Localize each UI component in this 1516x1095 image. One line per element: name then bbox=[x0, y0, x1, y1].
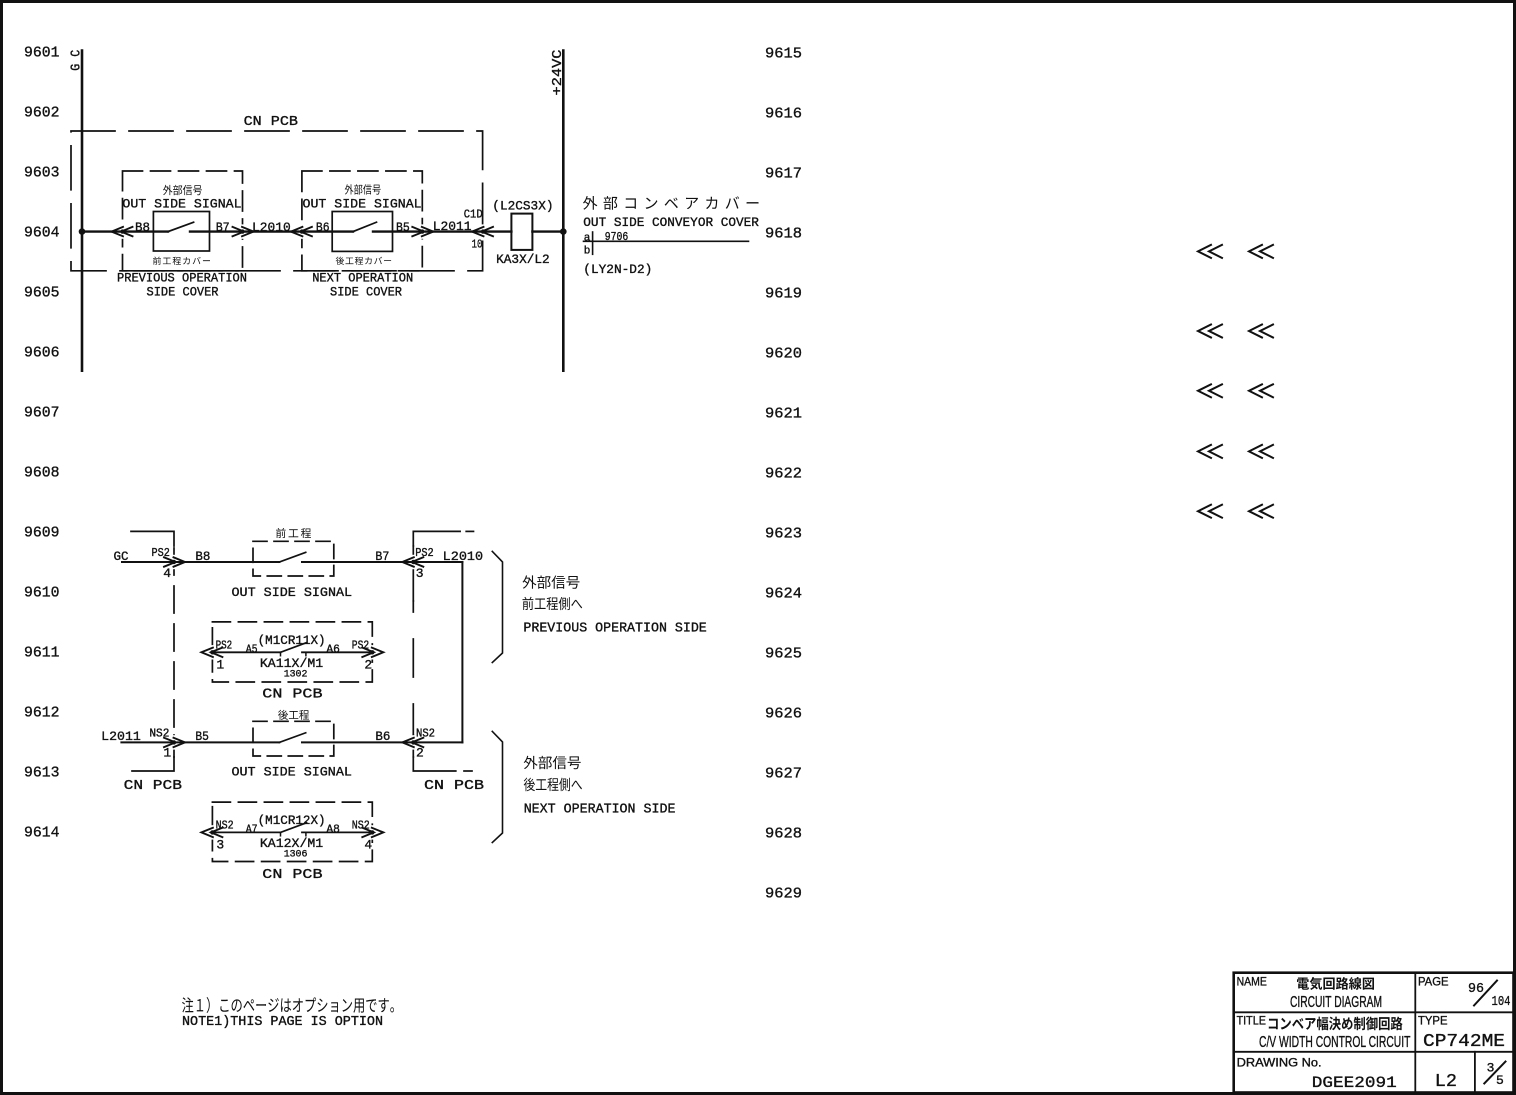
svg-text:a: a bbox=[584, 232, 591, 244]
net label L2011 (row 9612) bbox=[101, 729, 141, 744]
svg-text:PREVIOUS OPERATION: PREVIOUS OPERATION bbox=[117, 271, 247, 285]
svg-text:NS2: NS2 bbox=[216, 819, 234, 833]
label 外部信号 (S1) bbox=[163, 185, 202, 195]
svg-text:4: 4 bbox=[163, 566, 171, 581]
label KA3X/L2 bbox=[496, 252, 550, 267]
label DRAWING No. bbox=[1237, 1055, 1322, 1069]
label (LY2N-D2) bbox=[583, 262, 652, 277]
svg-text:PREVIOUS OPERATION SIDE: PREVIOUS OPERATION SIDE bbox=[523, 621, 706, 636]
label OUT SIDE SIGNAL (S2) bbox=[303, 196, 422, 211]
pin number 1 bbox=[216, 658, 224, 673]
dash continuation top right bbox=[466, 530, 473, 532]
label TYPE bbox=[1418, 1014, 1448, 1028]
switch S3 box (dashed) bbox=[253, 541, 334, 576]
svg-text:A5: A5 bbox=[246, 643, 258, 657]
svg-text:9603: 9603 bbox=[24, 164, 60, 181]
svg-text:9619: 9619 bbox=[765, 285, 802, 302]
svg-text:OUT SIDE CONVEYOR COVER: OUT SIDE CONVEYOR COVER bbox=[583, 216, 759, 230]
svg-text:+24VC: +24VC bbox=[550, 50, 566, 96]
title コンベア幅決め制御回路 bbox=[1269, 1017, 1403, 1031]
svg-text:TITLE: TITLE bbox=[1237, 1014, 1266, 1028]
contact KA12X blade bbox=[281, 823, 307, 833]
connector boundary left (bottom corner) bbox=[132, 757, 174, 771]
svg-text:5: 5 bbox=[1496, 1073, 1504, 1088]
contact a-b of LY2N relay, wire 9706 bbox=[584, 240, 749, 242]
pin label A8 bbox=[326, 823, 340, 837]
svg-text:GC: GC bbox=[114, 549, 129, 564]
label OUT SIDE SIGNAL (S3) bbox=[232, 585, 353, 600]
svg-text:NEXT OPERATION SIDE: NEXT OPERATION SIDE bbox=[524, 802, 676, 817]
wire L2011 into NS2 pin1 (row 9612) bbox=[121, 741, 279, 743]
svg-text:1: 1 bbox=[216, 658, 224, 673]
destination bracket (next side) bbox=[492, 731, 502, 842]
svg-text:TYPE: TYPE bbox=[1418, 1014, 1448, 1028]
title block small divider bbox=[1474, 1052, 1476, 1093]
label (L2CS3X) bbox=[492, 199, 553, 214]
svg-text:B6: B6 bbox=[316, 220, 330, 235]
svg-text:NOTE1)THIS PAGE IS OPTION: NOTE1)THIS PAGE IS OPTION bbox=[182, 1015, 383, 1030]
label CN PCB (bottom left) bbox=[124, 778, 182, 794]
svg-text:PS2: PS2 bbox=[216, 639, 233, 653]
wire S4 to corner (row 9612) bbox=[302, 741, 462, 743]
wire contact to PS2 pin2 bbox=[302, 651, 372, 653]
pin label B6 bbox=[316, 220, 330, 235]
svg-text:A6: A6 bbox=[326, 643, 340, 657]
pin number 4 bbox=[163, 566, 171, 581]
label PS2 (pin2) bbox=[352, 639, 369, 653]
pin label B5 bbox=[396, 220, 410, 235]
connector boundary box B8/B7 (previous cover switch) bbox=[123, 171, 243, 271]
svg-text:(M1CR11X): (M1CR11X) bbox=[258, 633, 326, 648]
svg-text:PAGE: PAGE bbox=[1418, 975, 1449, 989]
svg-text:CN PCB: CN PCB bbox=[244, 114, 298, 130]
svg-text:OUT SIDE SIGNAL: OUT SIDE SIGNAL bbox=[232, 765, 352, 780]
wire number 9706 bbox=[605, 231, 628, 244]
type CP742ME bbox=[1423, 1032, 1505, 1052]
net GC bus (left vertical rail) bbox=[81, 51, 84, 371]
destination bracket (previous side) bbox=[492, 551, 502, 662]
svg-text:9621: 9621 bbox=[765, 405, 802, 422]
wire GC into PS2 pin4 (row 9609) bbox=[122, 561, 279, 563]
label (M1CR11X) bbox=[258, 633, 326, 648]
label OUT SIDE SIGNAL (S1) bbox=[122, 196, 241, 211]
svg-text:C1D: C1D bbox=[464, 208, 483, 222]
label GC bbox=[114, 549, 129, 564]
wire switch S1 to switch S2 bbox=[190, 230, 353, 232]
svg-text:9618: 9618 bbox=[765, 225, 802, 242]
svg-text:NAME: NAME bbox=[1237, 975, 1267, 989]
label 外部信号 (S2) bbox=[345, 184, 381, 194]
svg-text:OUT SIDE SIGNAL: OUT SIDE SIGNAL bbox=[122, 196, 241, 211]
contact terminal ticks bbox=[280, 652, 282, 655]
label 前工程 (S3) bbox=[276, 528, 311, 538]
svg-text:L2011: L2011 bbox=[101, 729, 141, 744]
svg-text:1302: 1302 bbox=[284, 669, 308, 680]
connector arrow B7 (right) bbox=[241, 224, 245, 238]
pin label B6 (row 9612) bbox=[375, 729, 390, 744]
svg-text:B6: B6 bbox=[375, 729, 390, 744]
svg-text:1: 1 bbox=[163, 746, 171, 761]
svg-text:3: 3 bbox=[216, 838, 224, 853]
net label L2010 (row 9609) bbox=[443, 549, 483, 564]
svg-text:DGEE2091: DGEE2091 bbox=[1312, 1074, 1397, 1092]
CN PCB board boundary box (top) bbox=[71, 131, 483, 271]
label NAME bbox=[1237, 975, 1267, 989]
net label L2011 bbox=[433, 219, 472, 234]
svg-text:9620: 9620 bbox=[765, 345, 802, 362]
pin number 2 bbox=[364, 658, 372, 673]
label 後工程カバー (S2) bbox=[336, 257, 391, 265]
svg-text:1306: 1306 bbox=[284, 849, 308, 860]
title block frame bbox=[1234, 973, 1514, 1093]
connector arrow PS2 pin1 (left) bbox=[210, 645, 214, 659]
svg-text:9628: 9628 bbox=[765, 825, 802, 842]
svg-text:B5: B5 bbox=[195, 729, 209, 744]
svg-text:(LY2N-D2): (LY2N-D2) bbox=[583, 262, 652, 277]
svg-text:SIDE COVER: SIDE COVER bbox=[330, 285, 402, 299]
sheet number 3/5 bbox=[1487, 1061, 1495, 1076]
svg-text:PS2: PS2 bbox=[352, 639, 369, 653]
svg-text:3: 3 bbox=[416, 566, 424, 581]
pin label B8 (row 9609) bbox=[195, 549, 210, 564]
pin label B5 (row 9612) bbox=[195, 729, 209, 744]
connector arrow PS2 pin4 bbox=[172, 555, 176, 569]
svg-text:2: 2 bbox=[416, 746, 424, 761]
svg-text:2: 2 bbox=[364, 658, 372, 673]
pin label A5 bbox=[246, 643, 258, 657]
svg-text:9624: 9624 bbox=[765, 585, 802, 602]
label 外部信号 (to previous) bbox=[522, 575, 579, 588]
svg-text:L2010: L2010 bbox=[252, 220, 291, 235]
connector arrow B5 (right) bbox=[420, 224, 424, 238]
connector arrow NS2 pin1 bbox=[172, 735, 176, 749]
svg-text:NS2: NS2 bbox=[352, 819, 370, 833]
svg-text:B7: B7 bbox=[375, 549, 389, 564]
connector arrow NS2 pin3 (left) bbox=[210, 825, 214, 839]
label NS2 (pin3) bbox=[216, 819, 234, 833]
svg-text:9616: 9616 bbox=[765, 105, 802, 122]
label 前工程側へ bbox=[522, 597, 582, 610]
line number column right 9615-9629 bbox=[765, 45, 802, 902]
svg-text:104: 104 bbox=[1492, 994, 1511, 1010]
pin number 10 bbox=[472, 238, 483, 252]
connector arrow PS2 pin3 bbox=[411, 555, 415, 569]
junction node on GC rail bbox=[79, 228, 86, 235]
connector boundary right (dashed vertical) bbox=[412, 546, 414, 601]
svg-text:G C: G C bbox=[70, 50, 85, 71]
svg-text:9629: 9629 bbox=[765, 885, 802, 902]
label KA11X/M1 bbox=[260, 656, 323, 671]
label CN PCB (KA11X) bbox=[262, 687, 322, 703]
line number column left 9601-9614 bbox=[24, 44, 60, 841]
pin label a bbox=[584, 232, 591, 244]
svg-text:9611: 9611 bbox=[24, 644, 60, 661]
label PREVIOUS OPERATION SIDE bbox=[523, 621, 706, 636]
pin number 3 (NS2) bbox=[216, 838, 224, 853]
connector boundary right (bottom corner) bbox=[413, 757, 456, 771]
svg-text:9605: 9605 bbox=[24, 284, 60, 301]
connector boundary box B6/B5 (next cover switch) bbox=[302, 171, 422, 271]
svg-text:B8: B8 bbox=[135, 220, 150, 235]
pin number 1 (NS2) bbox=[163, 746, 171, 761]
svg-text:9613: 9613 bbox=[24, 764, 60, 781]
pin label A6 bbox=[326, 643, 340, 657]
wire number 1302 bbox=[284, 669, 308, 680]
switch S1 previous operation side cover (box) bbox=[153, 212, 209, 252]
connector boundary right (top corner) bbox=[413, 531, 460, 546]
label PS2 (pin1) bbox=[216, 639, 233, 653]
label SIDE COVER (S2) bbox=[330, 285, 402, 299]
svg-text:CN PCB: CN PCB bbox=[124, 778, 182, 794]
pin label b bbox=[584, 246, 591, 258]
title 電気回路線図 bbox=[1297, 977, 1374, 990]
svg-text:9614: 9614 bbox=[24, 824, 60, 841]
svg-text:9604: 9604 bbox=[24, 224, 60, 241]
svg-text:(L2CS3X): (L2CS3X) bbox=[492, 199, 553, 214]
title block row divider 1 bbox=[1234, 1011, 1514, 1013]
drawing number DGEE2091 bbox=[1312, 1074, 1397, 1092]
svg-text:9602: 9602 bbox=[24, 104, 60, 121]
svg-text:10: 10 bbox=[472, 238, 483, 252]
svg-text:DRAWING No.: DRAWING No. bbox=[1237, 1055, 1322, 1069]
switch S1 blade bbox=[168, 222, 194, 231]
note 注1）このページはオプション用です。 bbox=[182, 997, 394, 1013]
wire L2010 drop to row 9612 bbox=[461, 562, 463, 742]
label PAGE bbox=[1418, 975, 1449, 989]
svg-text:9625: 9625 bbox=[765, 645, 802, 662]
connector arrow PS2 pin2 (right) bbox=[370, 645, 374, 659]
svg-text:CN PCB: CN PCB bbox=[424, 778, 484, 794]
label PREVIOUS OPERATION (S1) bbox=[117, 271, 247, 285]
svg-text:9607: 9607 bbox=[24, 404, 60, 421]
label KA12X/M1 bbox=[260, 836, 323, 851]
svg-text:9612: 9612 bbox=[24, 704, 60, 721]
relay coil KA3X/L2 bbox=[511, 214, 532, 250]
pin label C1D bbox=[464, 208, 483, 222]
title block row divider 2 bbox=[1234, 1051, 1514, 1053]
connector arrow NS2 pin2 bbox=[411, 735, 415, 749]
connector arrow C1D pin10 (left) bbox=[481, 224, 485, 238]
net label +24VC (rotated) bbox=[550, 50, 566, 96]
pin label B7 (row 9609) bbox=[375, 549, 389, 564]
svg-text:PS2: PS2 bbox=[415, 546, 434, 560]
page link chevrons bbox=[1198, 245, 1211, 258]
label NEXT OPERATION SIDE bbox=[524, 802, 676, 817]
svg-text:9623: 9623 bbox=[765, 525, 802, 542]
svg-text:OUT SIDE SIGNAL: OUT SIDE SIGNAL bbox=[232, 585, 353, 600]
svg-text:CN PCB: CN PCB bbox=[262, 687, 322, 703]
label CN PCB (bottom right) bbox=[424, 778, 484, 794]
net +24VC bus (vertical rail) bbox=[562, 51, 565, 371]
switch S2 blade bbox=[353, 222, 377, 231]
svg-text:PS2: PS2 bbox=[152, 546, 170, 560]
switch S3 blade (previous operation) bbox=[279, 552, 305, 562]
svg-text:NS2: NS2 bbox=[149, 727, 169, 741]
label SIDE COVER (S1) bbox=[147, 285, 219, 299]
title block column divider bbox=[1414, 973, 1416, 1093]
svg-text:9610: 9610 bbox=[24, 584, 60, 601]
svg-text:9622: 9622 bbox=[765, 465, 802, 482]
label CN PCB (top) bbox=[244, 114, 298, 130]
switch S4 box (dashed) bbox=[253, 721, 334, 756]
pin number 4 (NS2) bbox=[364, 838, 372, 853]
svg-text:SIDE COVER: SIDE COVER bbox=[147, 285, 219, 299]
svg-text:A8: A8 bbox=[326, 823, 340, 837]
label 外部信号 (to next) bbox=[524, 756, 581, 769]
connector PS2/NS2 boundary left (top corner) bbox=[131, 531, 174, 546]
wire GC node to B8 switch (row 9604) bbox=[82, 230, 168, 232]
label CN PCB (KA12X) bbox=[262, 867, 322, 883]
connector arrow B8 (left) bbox=[121, 224, 125, 238]
svg-text:9627: 9627 bbox=[765, 765, 802, 782]
note NOTE1)THIS PAGE IS OPTION bbox=[182, 1015, 383, 1030]
pin number 2 (NS2) bbox=[416, 746, 424, 761]
svg-text:B5: B5 bbox=[396, 220, 410, 235]
svg-text:CIRCUIT DIAGRAM: CIRCUIT DIAGRAM bbox=[1290, 994, 1382, 1011]
contact terminal ticks (KA12X) bbox=[280, 832, 282, 835]
label PS2 (pin3) bbox=[415, 546, 434, 560]
label 後工程 (S4) bbox=[278, 710, 309, 720]
pin label B8 bbox=[135, 220, 150, 235]
svg-text:L2010: L2010 bbox=[443, 549, 483, 564]
pin label B7 bbox=[216, 220, 230, 235]
page number 96/104 bbox=[1468, 981, 1484, 997]
label NS2 (pin4) bbox=[352, 819, 370, 833]
svg-text:CP742ME: CP742ME bbox=[1423, 1032, 1505, 1052]
title CIRCUIT DIAGRAM bbox=[1290, 994, 1382, 1011]
svg-text:KA3X/L2: KA3X/L2 bbox=[496, 252, 550, 267]
switch S2 next operation side cover (box) bbox=[332, 212, 392, 252]
label NS2 (pin1) bbox=[149, 727, 169, 741]
pin number 3 bbox=[416, 566, 424, 581]
net label L2010 bbox=[252, 220, 291, 235]
connector arrow B6 (left) bbox=[300, 224, 304, 238]
wire S3 to L2010 corner bbox=[302, 561, 462, 563]
label OUT SIDE CONVEYOR COVER bbox=[583, 216, 759, 230]
sheet L2 bbox=[1435, 1071, 1457, 1092]
svg-text:C/V WIDTH CONTROL CIRCUIT: C/V WIDTH CONTROL CIRCUIT bbox=[1259, 1034, 1411, 1051]
net label GC (rotated) bbox=[70, 50, 85, 71]
svg-text:A7: A7 bbox=[246, 823, 258, 837]
svg-text:9609: 9609 bbox=[24, 524, 60, 541]
svg-text:(M1CR12X): (M1CR12X) bbox=[258, 813, 326, 828]
contact KA11X blade bbox=[281, 643, 307, 653]
relay contact KA11X/M1 box (dashed) bbox=[212, 622, 372, 682]
label PS2 (pin4) bbox=[152, 546, 170, 560]
svg-text:NEXT OPERATION: NEXT OPERATION bbox=[312, 271, 413, 285]
wire PS2 pin1 to contact bbox=[212, 651, 280, 653]
svg-text:CN PCB: CN PCB bbox=[262, 867, 322, 883]
wire relay coil to +24VC node bbox=[532, 230, 563, 232]
svg-text:9615: 9615 bbox=[765, 45, 802, 62]
dash continuation bottom right bbox=[464, 770, 472, 772]
svg-text:96: 96 bbox=[1468, 981, 1484, 997]
switch S4 blade (next operation) bbox=[279, 733, 305, 743]
wire NS2 pin3 to contact bbox=[212, 831, 280, 833]
label NEXT OPERATION (S2) bbox=[312, 271, 413, 285]
label TITLE bbox=[1237, 1014, 1266, 1028]
svg-text:L2: L2 bbox=[1435, 1071, 1457, 1092]
label 後工程側へ bbox=[524, 778, 582, 792]
label 前工程カバー (S1) bbox=[153, 257, 210, 265]
relay contact KA12X/M1 box (dashed) bbox=[212, 802, 372, 861]
connector boundary left (dashed vertical) bbox=[173, 548, 175, 735]
svg-text:OUT SIDE SIGNAL: OUT SIDE SIGNAL bbox=[303, 196, 422, 211]
connector arrow NS2 pin4 (right) bbox=[370, 825, 374, 839]
svg-text:B8: B8 bbox=[195, 549, 210, 564]
label (M1CR12X) bbox=[258, 813, 326, 828]
svg-text:9601: 9601 bbox=[24, 44, 60, 61]
svg-text:NS2: NS2 bbox=[416, 727, 435, 741]
svg-text:9626: 9626 bbox=[765, 705, 802, 722]
wire number 1306 bbox=[284, 849, 308, 860]
svg-text:9608: 9608 bbox=[24, 464, 60, 481]
title C/V WIDTH CONTROL CIRCUIT bbox=[1259, 1034, 1411, 1051]
junction node on +24VC rail bbox=[560, 228, 567, 235]
svg-text:B7: B7 bbox=[216, 220, 230, 235]
svg-text:9706: 9706 bbox=[605, 231, 628, 244]
label NS2 (pin2) bbox=[416, 727, 435, 741]
svg-text:9617: 9617 bbox=[765, 165, 802, 182]
svg-text:4: 4 bbox=[364, 838, 372, 853]
label OUT SIDE SIGNAL (S4) bbox=[232, 765, 352, 780]
svg-text:9606: 9606 bbox=[24, 344, 60, 361]
label 外部コンベアカバー bbox=[583, 196, 759, 210]
wire switch S2 to relay coil bbox=[373, 230, 511, 232]
wire contact to NS2 pin4 bbox=[302, 831, 372, 833]
pin label A7 bbox=[246, 823, 258, 837]
svg-text:b: b bbox=[584, 246, 591, 258]
